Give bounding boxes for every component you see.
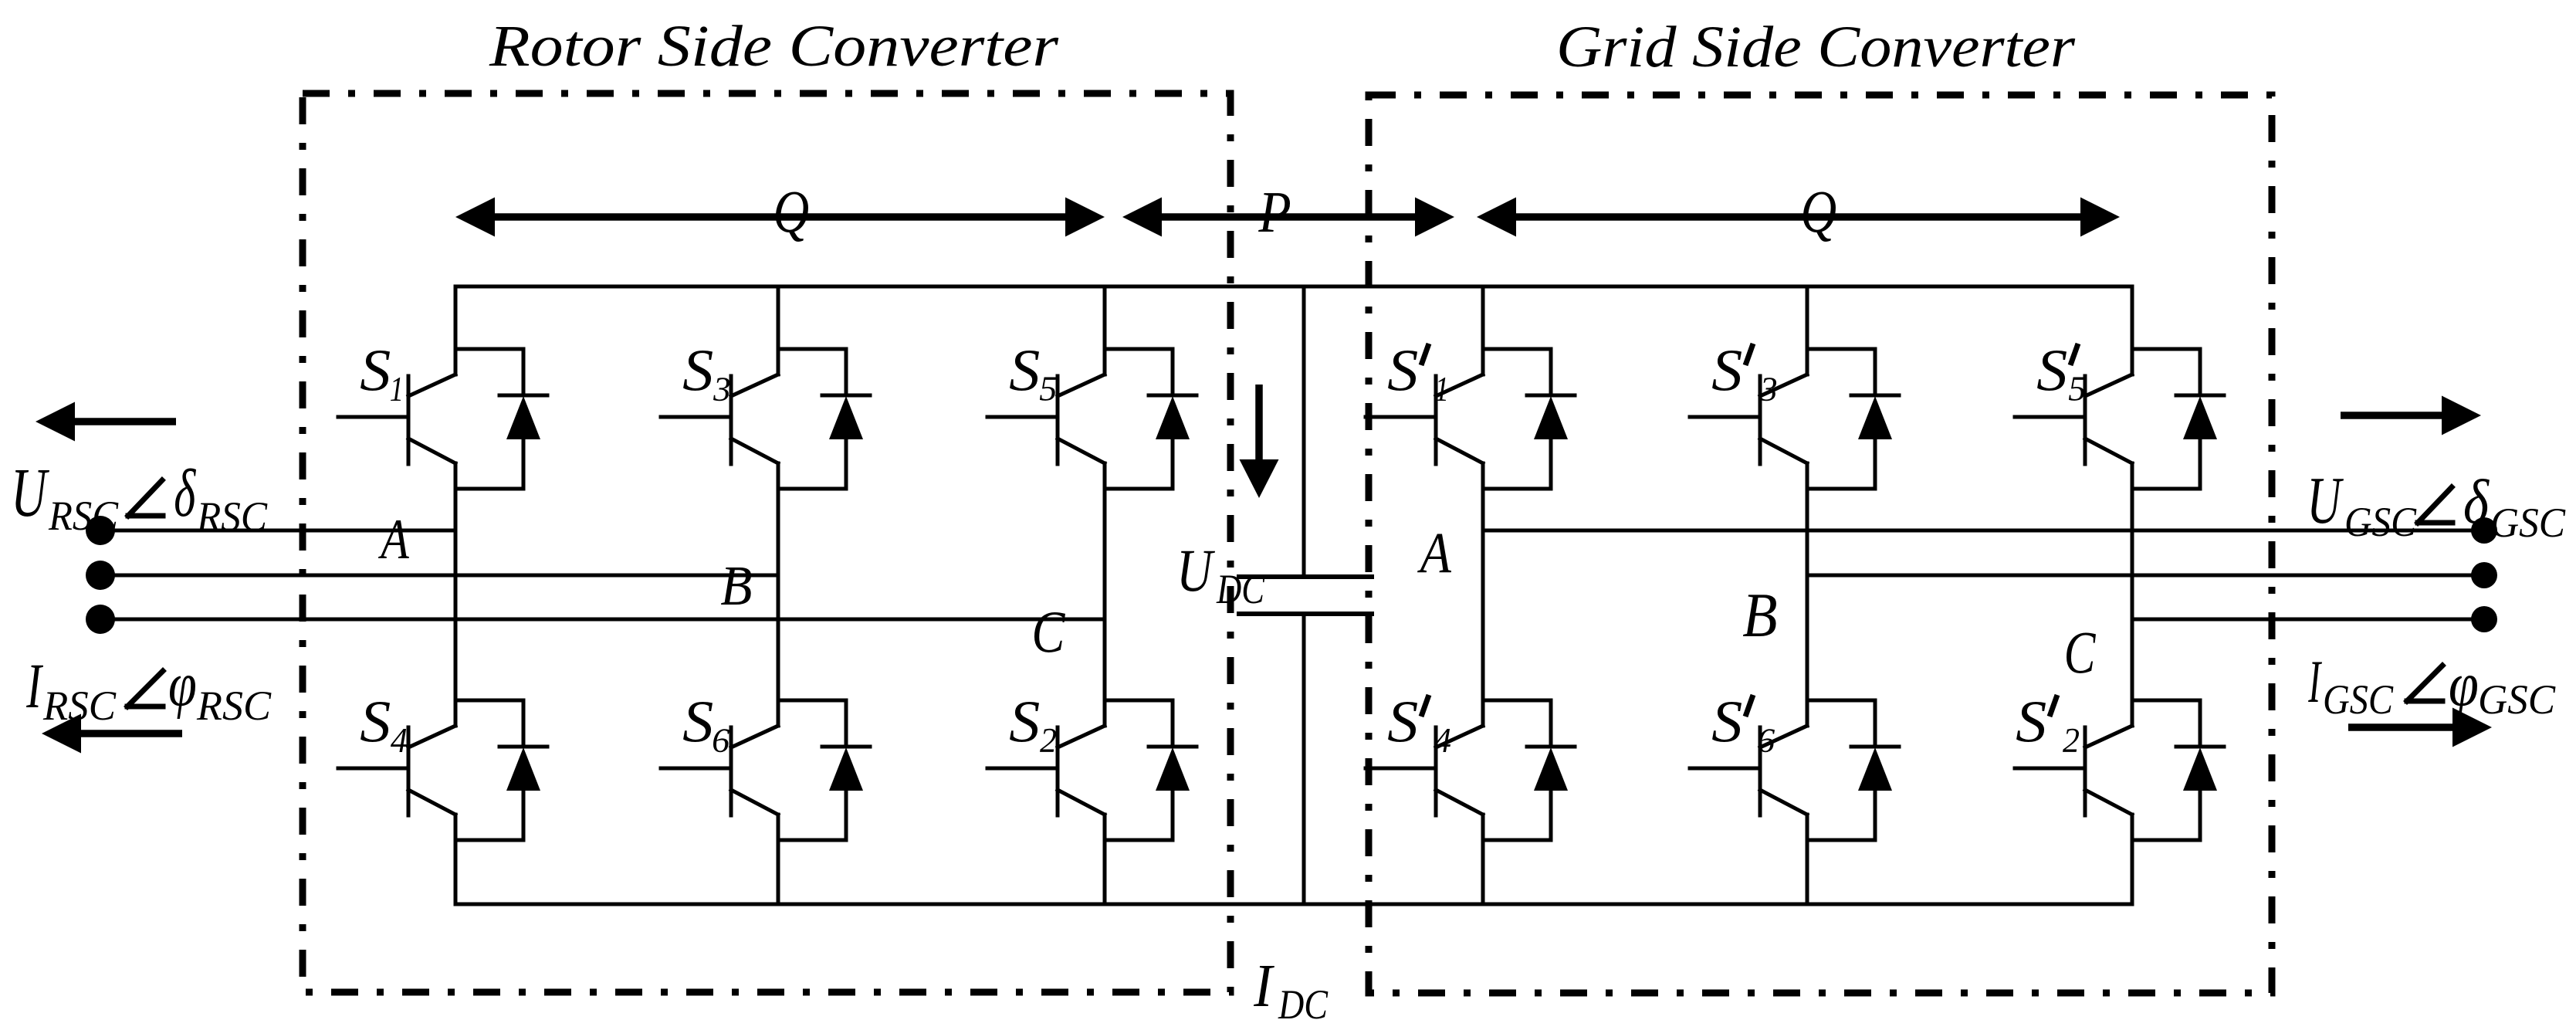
svg-text:U: U <box>11 454 50 531</box>
svg-text:B: B <box>720 554 752 617</box>
svg-text:RSC: RSC <box>48 493 119 539</box>
svg-text:S: S <box>1711 337 1742 403</box>
svg-text:U: U <box>2307 462 2344 537</box>
svg-text:5: 5 <box>2068 370 2086 408</box>
svg-text:A: A <box>1417 521 1451 585</box>
svg-text:φ: φ <box>168 649 197 720</box>
svg-text:GSC: GSC <box>2478 676 2556 723</box>
svg-text:I: I <box>25 650 43 721</box>
svg-text:B: B <box>1742 580 1777 650</box>
svg-text:δ: δ <box>174 456 196 530</box>
svg-text:RSC: RSC <box>196 683 272 729</box>
svg-text:5: 5 <box>1039 370 1057 408</box>
svg-text:S: S <box>360 337 391 403</box>
svg-text:1: 1 <box>390 370 404 408</box>
svg-text:I: I <box>1253 952 1274 1020</box>
svg-text:S: S <box>1711 688 1742 754</box>
svg-text:A: A <box>377 508 409 571</box>
svg-text:2: 2 <box>2063 721 2080 760</box>
svg-text:Rotor Side Converter: Rotor Side Converter <box>489 14 1059 79</box>
svg-text:S: S <box>2016 688 2046 754</box>
svg-text:3: 3 <box>713 370 731 408</box>
svg-text:S: S <box>1387 688 1418 754</box>
svg-text:DC: DC <box>1278 981 1329 1028</box>
svg-text:S: S <box>360 688 391 754</box>
svg-text:GSC: GSC <box>2344 499 2417 545</box>
svg-text:S: S <box>682 688 713 754</box>
svg-text:δ: δ <box>2463 466 2490 537</box>
svg-text:φ: φ <box>2449 649 2479 720</box>
svg-text:P: P <box>1258 179 1291 245</box>
svg-text:S: S <box>1009 337 1040 403</box>
svg-text:3: 3 <box>1759 370 1778 408</box>
svg-text:6: 6 <box>1757 721 1775 760</box>
svg-text:4: 4 <box>391 720 408 760</box>
svg-text:2: 2 <box>1040 721 1057 760</box>
svg-text:DC: DC <box>1216 566 1265 612</box>
svg-text:S: S <box>2036 337 2067 403</box>
svg-text:RSC: RSC <box>42 683 117 729</box>
svg-text:Grid Side Converter: Grid Side Converter <box>1556 15 2075 80</box>
svg-text:RSC: RSC <box>196 493 268 540</box>
svg-text:GSC: GSC <box>2490 500 2566 546</box>
svg-text:U: U <box>1176 537 1215 604</box>
svg-text:S: S <box>1009 688 1040 754</box>
svg-text:Q: Q <box>1800 178 1836 246</box>
svg-text:4: 4 <box>1434 720 1451 760</box>
svg-text:GSC: GSC <box>2323 676 2394 723</box>
svg-text:6: 6 <box>712 721 730 760</box>
svg-text:C: C <box>2064 619 2097 686</box>
svg-text:S: S <box>682 337 713 403</box>
svg-text:1: 1 <box>1435 370 1449 408</box>
svg-text:S: S <box>1387 337 1418 403</box>
svg-text:C: C <box>1031 598 1065 665</box>
svg-text:Q: Q <box>773 178 809 246</box>
svg-text:I: I <box>2308 649 2322 715</box>
